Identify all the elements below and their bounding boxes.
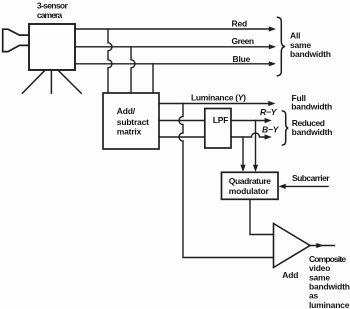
- arrowhead subcarrier: [279, 184, 286, 189]
- wire: B-Y matrix to LPF: [159, 136, 205, 138]
- block: Add/subtract matrix: [103, 93, 159, 149]
- arrowhead composite output: [316, 243, 323, 248]
- brace: all same bandwidth: [278, 17, 285, 76]
- arrowhead into modulator (R-Y): [253, 165, 258, 172]
- label: Add/subtract matrix: [117, 106, 149, 137]
- svg-text:Add/: Add/: [117, 106, 136, 116]
- camera tripod: [22, 71, 81, 93]
- svg-text:B−Y: B−Y: [262, 124, 280, 134]
- label: Quadrature modulator: [229, 176, 271, 196]
- wire: R-Y matrix to LPF: [159, 120, 205, 122]
- svg-text:matrix: matrix: [117, 127, 142, 137]
- arrowhead Blue: [269, 61, 276, 66]
- block: quadrature modulator: [222, 172, 279, 199]
- wire: Blue output: [75, 63, 270, 65]
- wire: Red output: [75, 28, 270, 30]
- brace: reduced bandwidth: [283, 111, 289, 145]
- wire: blue drop to matrix: [152, 64, 154, 93]
- wire: B-Y output of LPF (hops over R-Y drop): [231, 133, 266, 137]
- arrowhead B-Y: [265, 134, 272, 139]
- wire: subcarrier input: [285, 185, 328, 187]
- wire: red drop to matrix (hops over green and blue): [108, 29, 112, 93]
- wire: luminance Y: [159, 103, 270, 105]
- wire: Green output: [75, 46, 270, 48]
- svg-text:LPF: LPF: [213, 115, 228, 125]
- svg-text:modulator: modulator: [229, 186, 270, 196]
- svg-text:Quadrature: Quadrature: [229, 176, 271, 186]
- wire: green drop to matrix (hops over blue): [131, 47, 135, 93]
- arrowhead R-Y: [265, 118, 272, 123]
- svg-text:Green: Green: [232, 36, 254, 46]
- svg-text:bandwidth: bandwidth: [291, 102, 332, 112]
- arrowhead into modulator (B-Y): [240, 165, 245, 172]
- wire: composite video output: [310, 245, 335, 247]
- arrowhead luminance: [268, 101, 275, 106]
- camera body: [29, 24, 75, 70]
- svg-text:3-sensor: 3-sensor: [37, 1, 69, 11]
- wire: B-Y drop to quadrature modulator: [242, 137, 244, 166]
- wire: luminance drop to adder (hops over R-Y and B-Y): [179, 104, 274, 258]
- svg-text:Luminance (Y): Luminance (Y): [191, 92, 246, 102]
- svg-text:bandwidth: bandwidth: [290, 49, 331, 59]
- wire: modulator output to adder: [250, 200, 274, 235]
- svg-text:Add: Add: [282, 270, 298, 280]
- adder triangle: [274, 224, 311, 268]
- svg-text:bandwidth: bandwidth: [292, 127, 333, 137]
- svg-text:camera: camera: [37, 10, 63, 20]
- svg-text:subtract: subtract: [117, 117, 149, 127]
- label: Full bandwidth: [291, 93, 332, 112]
- arrowhead Red: [269, 26, 276, 31]
- svg-text:Red: Red: [232, 19, 247, 29]
- arrowhead Green: [269, 44, 276, 49]
- block: LPF: [205, 109, 231, 149]
- label: All same bandwidth: [290, 31, 331, 60]
- wire: R-Y output of LPF: [231, 120, 266, 122]
- camera lens: [3, 29, 29, 51]
- svg-text:R−Y: R−Y: [260, 107, 278, 117]
- svg-text:luminance: luminance: [309, 300, 350, 309]
- svg-text:Subcarrier: Subcarrier: [292, 173, 330, 183]
- label: 3-sensor camera: [37, 1, 69, 21]
- label: Composite video same bandwidth as luminance: [309, 254, 350, 309]
- label: Reduced bandwidth: [292, 118, 333, 137]
- svg-text:Blue: Blue: [233, 54, 251, 64]
- wire: R-Y drop to quadrature modulator: [255, 121, 257, 167]
